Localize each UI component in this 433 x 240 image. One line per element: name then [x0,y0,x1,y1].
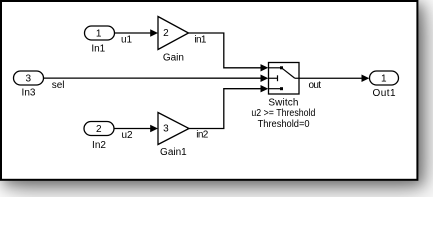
svg-text:2: 2 [96,124,102,135]
svg-text:in1: in1 [194,34,206,45]
svg-text:3: 3 [26,74,32,85]
inport In3 [14,71,44,99]
wire out (Switch to Out1) [299,75,369,91]
control input stub with tick [269,77,278,79]
output stub [295,77,299,79]
wire in2 (Gain1 to Switch input 3) [189,85,268,141]
wire u1 (In1 to Gain) [115,29,159,45]
switch block Switch [251,63,315,130]
svg-text:u2 >= Threshold: u2 >= Threshold [251,108,315,119]
svg-text:Out1: Out1 [373,88,396,99]
svg-text:sel: sel [52,80,65,91]
svg-text:3: 3 [163,124,169,135]
input 3 stub [269,88,281,90]
svg-text:in2: in2 [196,130,208,141]
svg-text:In1: In1 [91,44,105,55]
svg-text:Gain1: Gain1 [160,147,187,158]
gain block Gain [158,17,189,64]
svg-text:In3: In3 [22,88,36,99]
svg-text:u2: u2 [122,130,134,141]
inport In2 [84,122,114,151]
wire u2 (In2 to Gain1) [114,125,158,141]
wire sel (In3 to Switch control input) [44,75,269,91]
svg-text:Gain: Gain [163,52,184,63]
svg-text:Threshold=0: Threshold=0 [258,119,310,130]
model frame with drop shadow (decorative) [1,1,417,180]
switch lever (diagonal) [282,68,295,78]
svg-text:out: out [309,80,322,91]
inport In1 [85,26,115,55]
input 1 stub [269,67,281,69]
svg-text:1: 1 [381,74,387,85]
svg-text:2: 2 [163,28,169,39]
svg-text:In2: In2 [92,140,106,151]
gain block Gain1 [158,113,189,159]
svg-text:u1: u1 [121,35,133,46]
svg-text:1: 1 [96,29,102,40]
wire in1 (Gain to Switch input 1) [189,33,269,72]
outport Out1 [370,71,399,99]
